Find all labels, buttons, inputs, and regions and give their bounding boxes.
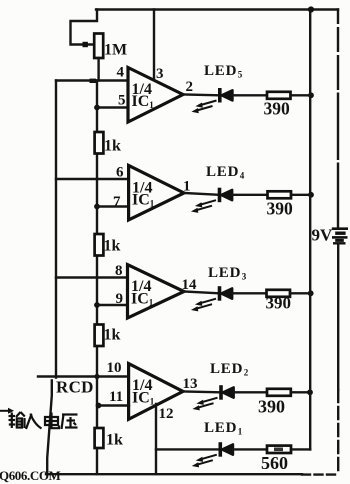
input arrow [0,408,14,414]
svg-text:390: 390 [267,199,294,219]
op-amp U1b 1/4 IC1 [129,165,184,220]
resistor R390a 390 [267,92,291,99]
junction dot row4 / LED rail [307,389,313,395]
junction dot pin 9 tap [94,302,100,308]
junction square on 1M feed wire [83,42,88,47]
op-amp U1a 1/4 IC1 [128,68,183,123]
junction dot pin 10 row / divider rail [94,374,99,379]
wire pin 6 row [56,178,128,180]
svg-text:LED3: LED3 [208,265,247,282]
junction dot pin 11 tap [96,403,102,409]
LED1 diode [220,442,233,457]
LED4 emission arrows [191,200,216,213]
LED4 diode [220,188,233,203]
svg-text:390: 390 [266,294,292,313]
op-amp U1d 1/4 IC1 [129,364,183,420]
svg-text:RCD: RCD [56,378,94,397]
wire pin 5 row [97,106,127,108]
svg-text:1k: 1k [106,432,123,449]
wire LED4 to R390b [232,194,267,196]
resistor R560 560 [267,446,291,453]
op-amp U1c 1/4 IC1 [128,265,185,318]
wire battery rail upper [337,10,339,228]
battery B1 9V plates [332,229,348,244]
svg-text:13: 13 [183,376,198,392]
wire R390b to LED rail [291,194,311,196]
svg-text:390: 390 [258,397,285,417]
svg-text:1k: 1k [104,138,121,155]
svg-text:11: 11 [109,389,123,405]
svg-text:10: 10 [107,360,122,376]
wire output row 2 (pin1 to LED4) [184,193,218,195]
LED5 diode [220,88,233,103]
wire bottom ground rail [46,473,302,475]
svg-text:390: 390 [264,99,291,119]
wire output row 3 (pin14 to LED3) [184,292,218,294]
junction blob 1M lead / pin4 row [90,79,97,83]
resistor R5 1k [95,428,104,448]
svg-text:LED4: LED4 [206,164,245,181]
wire from top rail down to 1M (Z bend) [71,10,98,45]
LED5 emission arrows [191,101,216,114]
wire R390d to LED rail [291,391,310,393]
resistor R390d 390 [267,389,291,396]
wire R390a to LED rail [291,94,312,96]
smudge inside 560 body [274,448,283,452]
svg-text:8: 8 [115,263,123,279]
svg-text:5: 5 [118,93,126,109]
resistor R2 1k [95,132,104,154]
wire pin 9 row [97,304,127,306]
wire pin 11 row [99,404,130,406]
wire battery rail lower [337,245,339,391]
wire output row 1 (pin2 to LED5) [183,93,218,96]
svg-text:1M: 1M [104,42,127,59]
wire pin 3 vertical to top rail [153,10,155,81]
junction dot LED rail / top rail [308,6,314,12]
svg-text:560: 560 [261,453,288,473]
wire pin 8 row [56,276,127,278]
scan gaps on battery rail [336,24,341,163]
svg-text:9: 9 [116,291,124,307]
wire pin 7 row [97,205,128,207]
svg-text:1k: 1k [104,327,121,344]
wire LED2 to R390d [234,391,267,393]
LED3 diode [220,286,233,301]
wire row 5 from pin12 vertical to LED1 [156,448,219,450]
svg-text:LED1: LED1 [204,420,243,437]
svg-text:1k: 1k [104,238,121,255]
svg-text:Q606.COM: Q606.COM [0,468,61,483]
LED2 emission arrows [192,398,217,411]
svg-text:7: 7 [113,194,121,210]
wire R390c to LED rail [290,292,311,294]
wire RCD tick and slanted input lead [47,381,52,475]
wire R560 right to corner up [291,448,310,450]
wire output row 4 (pin13 to LED2) [183,390,219,393]
resistor R1 1M [94,34,103,59]
svg-text:3: 3 [156,66,164,82]
wire LED5 to R390a [233,94,268,96]
LED1 emission arrows [192,455,217,468]
LED2 diode [221,385,234,400]
junction dot row3 / LED rail [308,290,314,296]
wire left input rail [55,81,57,378]
junction dot row1 / LED rail [308,92,314,98]
wire LED common rail (x=311) [309,10,311,450]
svg-text:4: 4 [117,65,125,81]
svg-text:2: 2 [186,79,194,95]
junction dot pin 7 tap [94,204,100,210]
junction dot row2 / LED rail [308,192,314,198]
wire LED3 to R390c [232,292,266,294]
wire battery rail lower dashed [337,390,339,473]
svg-text:9V: 9V [312,226,334,245]
svg-text:LED2: LED2 [210,361,249,378]
resistor R3 1k [95,234,104,256]
wire 1M bottom lead [97,58,99,81]
wire pin 4 row [56,79,127,81]
wire bottom ground rail dashed part [302,473,338,475]
wire pin 12 ground vertical [155,404,157,474]
wire LED1 to R560 [233,448,267,450]
wire divider rail [96,81,98,475]
junction dot pin 5 tap [94,105,100,111]
resistor R390c 390 [267,290,291,297]
resistor R390b 390 [268,191,292,198]
svg-text:12: 12 [159,406,174,422]
resistor R4 1k [95,325,104,347]
LED3 emission arrows [191,299,216,312]
svg-text:6: 6 [116,165,124,181]
wire top supply rail [96,8,338,10]
svg-text:LED5: LED5 [204,63,243,80]
wire pin 10 row [38,375,128,377]
label input voltage (Chinese 输入电压) [9,412,78,429]
